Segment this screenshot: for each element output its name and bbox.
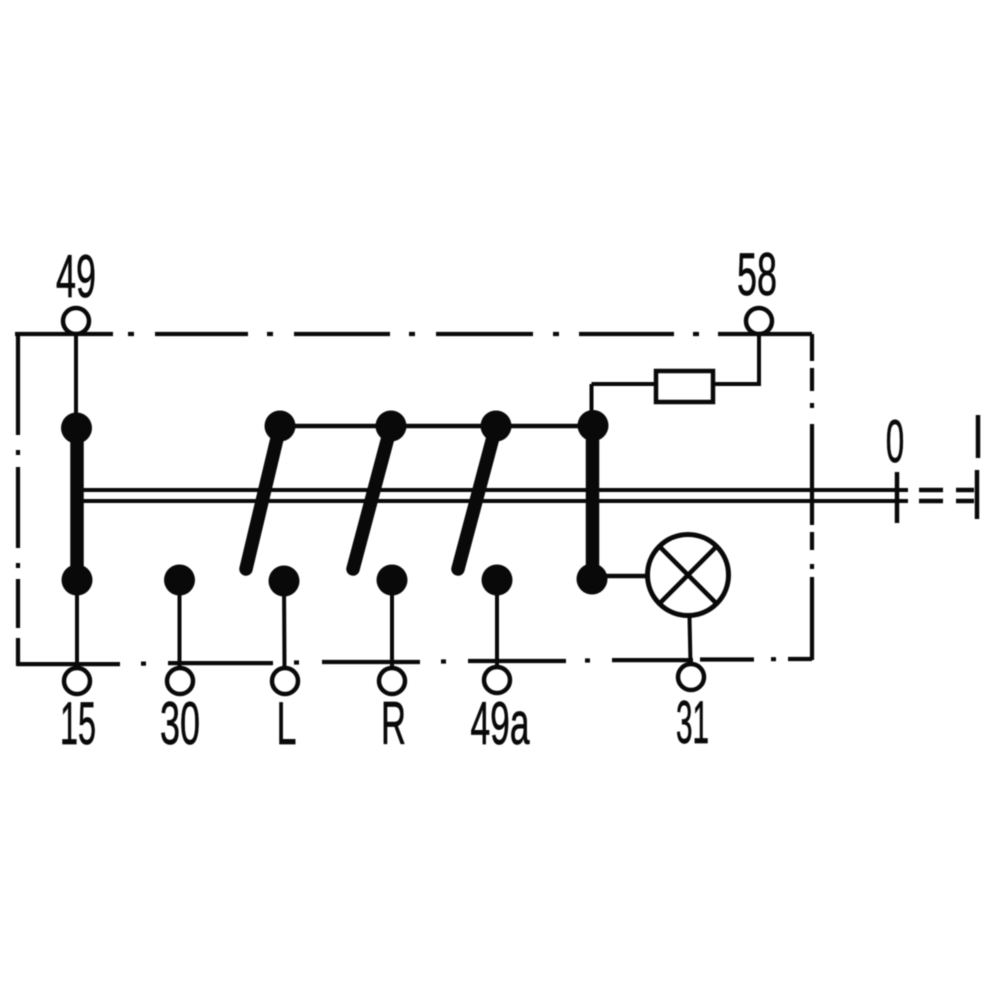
svg-text:58: 58	[737, 241, 777, 308]
wire terminal49 to contact dot	[74, 334, 78, 420]
contact dot R bottom	[377, 565, 408, 596]
svg-text:15: 15	[60, 690, 96, 757]
contact dot 49a bottom	[482, 565, 513, 596]
wire contact dot to terminal 15	[75, 580, 79, 668]
movable contact arm R (open)	[353, 426, 391, 569]
terminal 30	[167, 668, 193, 694]
contact bridge 49-15 (closed)	[70, 428, 84, 580]
junction dot R top	[376, 411, 407, 442]
terminal R	[379, 668, 405, 694]
terminal 49a	[484, 667, 510, 693]
contact dot 30	[164, 565, 195, 596]
flasher bus wire (top)	[280, 424, 593, 429]
junction dot 49a top	[481, 411, 512, 442]
indicator lamp (circle with cross)	[648, 535, 729, 616]
position mark I (on position)	[976, 415, 981, 458]
terminal 15	[64, 668, 90, 694]
terminal 31	[678, 664, 704, 690]
shaft position tick I	[975, 470, 980, 519]
wire contact dot to terminal R	[390, 580, 394, 668]
contact bridge 58-31 (closed)	[586, 426, 600, 580]
svg-text:L: L	[277, 690, 297, 757]
actuator shaft (double line)	[74, 490, 908, 501]
wire junction 58-branch up	[590, 384, 594, 425]
movable contact arm L (open)	[246, 426, 280, 569]
shaft position tick 0	[895, 472, 900, 523]
wire resistor right	[713, 382, 759, 386]
wire to resistor left	[592, 382, 657, 386]
svg-text:30: 30	[160, 690, 200, 757]
switch housing boundary (dash-dot box)	[15, 334, 812, 666]
movable contact arm 49a (open)	[458, 426, 496, 569]
resistor (instrument light dimming)	[656, 371, 713, 402]
wire contact dot to terminal 30	[178, 580, 182, 668]
terminal 58	[746, 308, 772, 334]
svg-text:R: R	[381, 690, 406, 757]
contact dot L bottom	[269, 566, 300, 597]
wire up to terminal 58	[757, 335, 761, 386]
svg-text:49a: 49a	[471, 690, 530, 757]
junction dot L top	[265, 411, 296, 442]
wire lamp feed	[592, 574, 650, 579]
wire lamp to terminal 31	[690, 617, 691, 664]
terminal L	[272, 668, 298, 694]
terminal 49	[63, 308, 89, 334]
wire contact dot to terminal 49a	[495, 580, 499, 667]
shaft travel dashes	[919, 490, 974, 501]
junction dot 58 branch	[578, 410, 609, 441]
junction dot 49 top	[61, 413, 92, 444]
svg-text:31: 31	[676, 689, 709, 756]
svg-text:0: 0	[886, 408, 905, 475]
junction dot 15	[62, 565, 93, 596]
svg-text:49: 49	[56, 243, 96, 310]
wire contact dot to terminal L	[282, 581, 287, 668]
junction dot lamp feed	[577, 564, 608, 595]
